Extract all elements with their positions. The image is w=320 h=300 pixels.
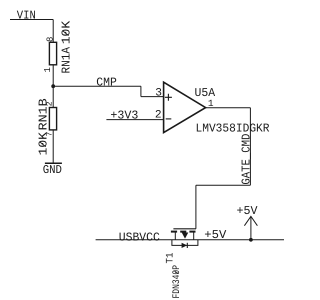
net label USBVCC [119, 230, 160, 244]
value 10K (RN1A, slashed zero) [59, 20, 73, 44]
svg-text:CMP: CMP [96, 75, 117, 89]
svg-text:GND: GND [43, 163, 62, 177]
wire down to MOSFET gate [195, 185, 197, 229]
transistor Q T1 gate bar [173, 228, 196, 230]
wire RN1B to ground [52, 130, 54, 163]
svg-text:+3V3: +3V3 [110, 108, 138, 122]
transistor value FDN340P (with slashed zero) [172, 265, 183, 299]
T1 body diode cathode bar [186, 243, 188, 248]
T1 body diode loop [172, 240, 198, 246]
pin number 2 (RN1B top) [46, 101, 55, 106]
op-amp value LMV358IDGKR [196, 122, 270, 136]
T1 drain stub [193, 232, 195, 239]
net label GATE_CMD [240, 134, 254, 185]
resistor RN1A body [49, 42, 56, 65]
svg-text:1: 1 [43, 67, 53, 72]
net label +3V3 [110, 108, 138, 122]
wire op-amp output horizontal [206, 107, 251, 109]
pin number 3 [155, 88, 162, 100]
wire RN1A pin1 to node CMP [52, 65, 54, 86]
T1 channel bar left [171, 231, 177, 233]
svg-text:+5V: +5V [204, 228, 227, 242]
+5V supply stem [250, 216, 252, 239]
label RN1A 10K (with slashed zero) [59, 46, 73, 73]
op-amp designator U5A [195, 86, 216, 100]
T1 bulk arrow (points down) [182, 233, 189, 239]
pin number 1 (output) [208, 98, 214, 109]
net label CMP [96, 75, 117, 89]
wire +3V3 into op-amp pin 2 [106, 119, 163, 121]
+5V supply label [237, 204, 259, 218]
svg-text:LMV358IDGKR: LMV358IDGKR [196, 122, 270, 136]
pin number 2 [155, 109, 162, 121]
svg-text:+5V: +5V [237, 204, 259, 218]
ground label GND [43, 163, 62, 177]
value 10K (RN1B, slashed zero) [37, 131, 51, 155]
T1 source stub [174, 232, 176, 239]
svg-text:VIN: VIN [17, 9, 36, 23]
wire USBVCC rail [96, 239, 284, 241]
wire GATE_CMD vertical [249, 108, 251, 186]
T1 body diode triangle [182, 243, 188, 248]
transistor designator T1 [166, 253, 177, 264]
svg-text:FDN340P: FDN340P [172, 265, 183, 299]
net label +5V (on rail) [204, 228, 227, 242]
T1 channel bar middle [180, 231, 186, 233]
+5V supply arrow chevron [244, 216, 257, 225]
wire VIN down to RN1A pin 8 [52, 20, 54, 43]
wire VIN horizontal [10, 19, 53, 21]
ground bar [45, 162, 62, 164]
wire junction down to RN1B [52, 86, 54, 107]
svg-text:10K: 10K [59, 20, 73, 44]
svg-text:2: 2 [155, 109, 162, 121]
svg-text:RN1B: RN1B [37, 98, 51, 130]
svg-text:8: 8 [45, 37, 55, 42]
resistor RN1B body [49, 108, 56, 130]
pin number 8 (RN1A top) [45, 37, 55, 42]
wire CMP jog down [140, 86, 142, 96]
non-inverting + sign [165, 94, 172, 101]
svg-text:T1: T1 [166, 253, 177, 264]
svg-text:3: 3 [155, 88, 162, 100]
T1 channel bar right [189, 231, 195, 233]
node +5V junction dot [249, 238, 253, 242]
inverting - sign [166, 118, 172, 120]
svg-text:USBVCC: USBVCC [119, 230, 160, 244]
op-amp U5A triangle [164, 82, 206, 132]
wire jog left toward gate [196, 184, 251, 186]
wire CMP horizontal [53, 85, 141, 87]
label 10K RN1B (with slashed zero) [37, 98, 51, 130]
net label VIN [17, 9, 36, 23]
pin number 1 (RN1A bottom) [43, 67, 53, 72]
wire CMP into op-amp pin 3 [141, 96, 164, 98]
svg-text:RN1A: RN1A [59, 46, 73, 73]
pin number 7 (RN1B bottom) [46, 132, 55, 137]
node CMP junction dot [51, 84, 55, 88]
svg-text:GATE_CMD: GATE_CMD [240, 134, 254, 185]
